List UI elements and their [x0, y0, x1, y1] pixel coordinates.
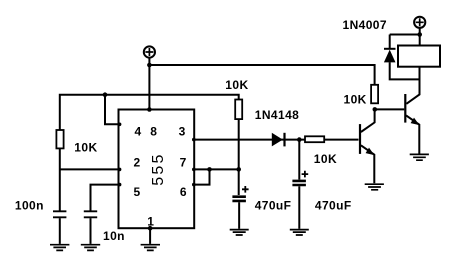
svg-text:10K: 10K: [74, 140, 97, 154]
svg-text:10n: 10n: [103, 229, 125, 243]
svg-text:470uF: 470uF: [255, 198, 292, 212]
svg-text:7: 7: [180, 155, 187, 169]
svg-text:1N4007: 1N4007: [343, 18, 387, 32]
svg-text:5: 5: [133, 185, 140, 199]
svg-text:10K: 10K: [314, 152, 337, 166]
svg-text:1: 1: [147, 215, 154, 229]
svg-text:3: 3: [179, 124, 186, 138]
svg-text:1N4148: 1N4148: [255, 108, 299, 122]
svg-text:4: 4: [134, 124, 141, 138]
svg-text:470uF: 470uF: [315, 198, 352, 212]
svg-text:8: 8: [150, 124, 157, 138]
svg-text:100n: 100n: [15, 199, 44, 213]
svg-text:2: 2: [133, 155, 140, 169]
svg-text:10K: 10K: [225, 78, 248, 92]
svg-text:10K: 10K: [344, 92, 367, 106]
svg-text:555: 555: [150, 152, 167, 185]
svg-text:6: 6: [180, 185, 187, 199]
